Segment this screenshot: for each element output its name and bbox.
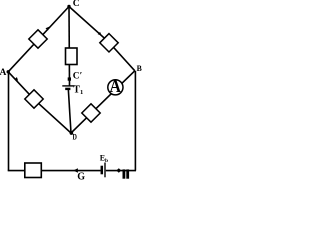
cell T1 short thick plate <box>65 88 70 90</box>
wire T1-D (middle branch lower) <box>68 89 71 133</box>
cell T1 long plate <box>62 85 74 87</box>
wire C-B <box>69 7 135 71</box>
key K plug bar 2 <box>126 169 129 178</box>
resistor R (rectangle in middle branch C-D) <box>66 48 78 65</box>
junction dot / arrow before key <box>116 168 121 172</box>
arrow on arm C-B (pointing to B) <box>98 32 102 36</box>
arrow G (on bottom wire, pointing left) <box>73 168 78 173</box>
wire C-C' (middle branch upper) <box>68 7 71 86</box>
svg-text:B: B <box>137 63 142 73</box>
node C (junction dot) <box>67 5 70 8</box>
resistor on arm D-B <box>82 104 100 122</box>
arrow on arm A-C (pointing to C) <box>46 27 50 31</box>
battery Eb long thin plate <box>104 163 106 178</box>
svg-text:C′: C′ <box>73 72 83 82</box>
svg-text:G: G <box>77 172 85 183</box>
node D (junction dot) <box>70 131 74 135</box>
junction node C' (dot) <box>68 77 71 80</box>
wire bottom right of battery <box>106 170 136 172</box>
resistor P (square on arm A-C) <box>29 30 47 48</box>
wire A-C <box>8 7 69 72</box>
rheostat (rectangle on bottom wire) <box>25 163 42 178</box>
svg-text:D: D <box>73 132 77 142</box>
arrow on arm A-D (pointing to D) <box>15 77 18 81</box>
resistor Q (square on arm C-B) <box>100 34 118 52</box>
wire bottom left <box>8 170 101 172</box>
wire D-B <box>71 71 135 133</box>
svg-text:C: C <box>73 0 80 9</box>
wire A-D <box>8 72 71 133</box>
key K plug bar 1 <box>123 169 126 178</box>
wire A down left edge <box>8 72 10 171</box>
node A (junction dot) <box>7 70 10 73</box>
svg-text:A: A <box>0 68 7 78</box>
battery Eb short thick plate <box>101 166 104 175</box>
svg-text:A: A <box>109 76 121 96</box>
resistor on arm A-D <box>25 90 43 108</box>
wire B down right edge <box>134 71 136 171</box>
ammeter A (circle on arm D-B) <box>108 80 123 95</box>
